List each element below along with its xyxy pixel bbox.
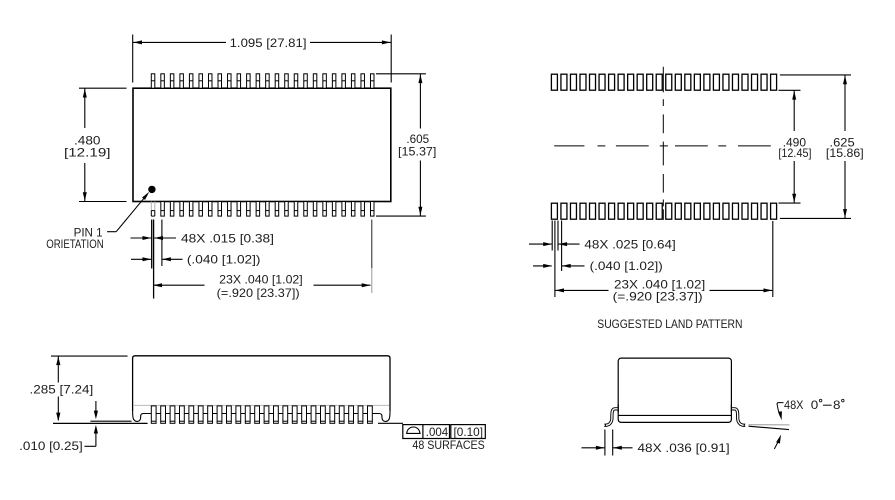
bottom pin row (24 leads): [151, 202, 374, 217]
svg-text:(.040 [1.02]): (.040 [1.02]): [590, 259, 663, 273]
svg-text:(=.920 [23.37]): (=.920 [23.37]): [613, 290, 703, 304]
extension lines pad 1: [552, 221, 561, 298]
dimension 1.095 [27.81] overall width: [133, 35, 392, 83]
callout 48X .025 [0.64] pad width: [529, 237, 676, 251]
svg-text:.010 [0.25]: .010 [0.25]: [19, 439, 83, 453]
lead angle reference lines: [749, 425, 790, 430]
pin 1 index dot: [148, 186, 155, 193]
dimension .625 [15.86] outer pad span: [780, 75, 864, 219]
svg-text:(=.920 [23.37]): (=.920 [23.37]): [217, 286, 300, 300]
svg-text:[0.10]: [0.10]: [454, 425, 484, 439]
dimension .605 [15.37] overall height: [376, 74, 436, 216]
svg-text:SUGGESTED LAND PATTERN: SUGGESTED LAND PATTERN: [597, 317, 742, 331]
svg-text:48X .036 [0.91]: 48X .036 [0.91]: [638, 441, 730, 455]
svg-text:48 SURFACES: 48 SURFACES: [412, 438, 484, 452]
svg-text:[12.19]: [12.19]: [64, 146, 111, 160]
svg-text:ORIETATION: ORIETATION: [46, 237, 103, 251]
land pattern bottom pad row: [551, 203, 776, 219]
svg-text:48X .025 [0.64]: 48X .025 [0.64]: [584, 237, 675, 251]
dimension 23X .040 [1.02] =.920 [23.37] lead span: [153, 220, 372, 300]
angular dimension 48X 0°-8°: [774, 398, 844, 449]
side view body parting line: [134, 404, 389, 406]
side view leads (24): [151, 406, 372, 423]
label PIN 1 ORIETATION: [46, 225, 103, 251]
svg-text:23X .040 [1.02]: 23X .040 [1.02]: [219, 273, 303, 287]
svg-text:0: 0: [811, 398, 819, 412]
package bottom reference line: [90, 420, 131, 422]
horizontal center line: [554, 145, 771, 147]
extension to flatness frame: [378, 422, 403, 424]
dimension .480 [12.19] body height: [64, 88, 127, 201]
svg-text:(.040 [1.02]): (.040 [1.02]): [187, 253, 261, 267]
side view body outline: [133, 356, 390, 422]
land pattern top pad row: [551, 74, 776, 90]
flatness feature control frame .004 [0.10]: [403, 425, 486, 440]
side view lead row line: [151, 413, 371, 415]
dimension 48X .036 [0.91] foot length: [582, 430, 730, 456]
callout (.040 [1.02]) pad pitch: [533, 259, 663, 273]
top pin row (24 leads): [151, 74, 374, 88]
end view right gull-wing lead: [731, 408, 745, 427]
dimension .285 [7.24] body height side: [30, 356, 128, 421]
svg-text:[12.45]: [12.45]: [778, 146, 811, 160]
callout (.040 [1.02]) lead pitch: [131, 253, 261, 267]
svg-text:.285 [7.24]: .285 [7.24]: [30, 383, 94, 397]
dimension 23X .040 [1.02] =.920 [23.37] pad span: [555, 221, 773, 304]
end view left gull-wing lead: [604, 408, 618, 427]
dimension .010 [0.25] standoff: [19, 401, 98, 453]
extension lines pin 1: [152, 220, 162, 299]
callout 48X .015 [0.38] lead width: [131, 231, 275, 245]
svg-text:.004: .004: [426, 425, 449, 439]
svg-text:[15.37]: [15.37]: [398, 144, 436, 158]
package body top view: [133, 88, 391, 201]
pin 1 leader line: [107, 192, 149, 232]
svg-text:48X .015 [0.38]: 48X .015 [0.38]: [181, 231, 274, 245]
end view body edge over leads: [618, 405, 731, 413]
end view body: [618, 358, 731, 422]
caption SUGGESTED LAND PATTERN: [597, 317, 742, 331]
svg-text:48X: 48X: [784, 398, 804, 412]
seating plane line: [53, 422, 148, 424]
dimension .490 [12.45] inner pad span: [778, 90, 811, 203]
svg-text:8: 8: [833, 398, 841, 412]
svg-text:[15.86]: [15.86]: [826, 146, 864, 160]
svg-text:1.095 [27.81]: 1.095 [27.81]: [230, 36, 307, 50]
label 48 SURFACES: [412, 438, 484, 452]
vertical center line: [662, 67, 664, 220]
